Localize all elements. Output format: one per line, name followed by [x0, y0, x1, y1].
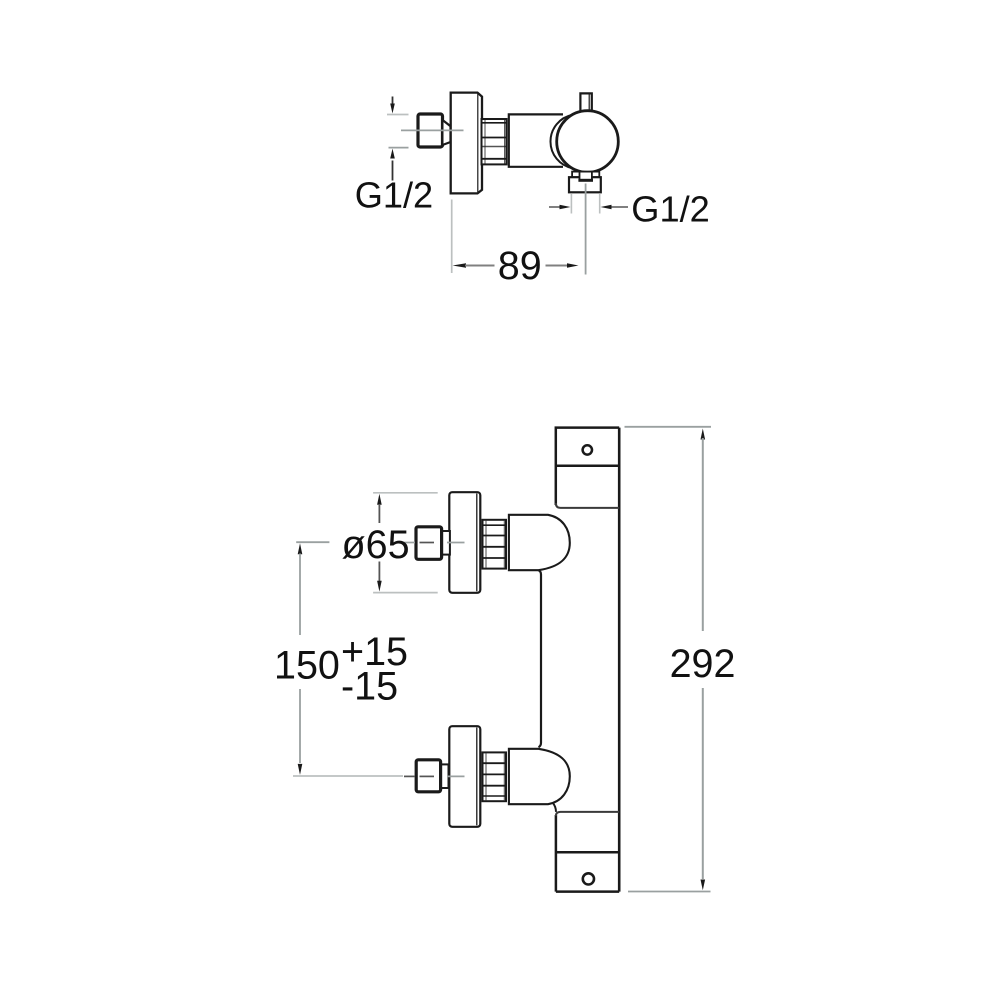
dimension 89	[453, 263, 579, 268]
svg-text:89: 89	[498, 244, 542, 288]
bottom edge	[556, 890, 619, 893]
top shoulder	[556, 503, 619, 508]
outlet flange (top view)	[572, 172, 599, 178]
knob skirt arc (top view)	[550, 115, 572, 168]
lower escutcheon disc front	[449, 726, 480, 827]
upper collar	[442, 531, 450, 555]
lower valve bell	[509, 749, 570, 804]
centerline top view	[401, 129, 464, 131]
bottom shoulder	[556, 812, 619, 816]
dimension 150	[293, 542, 403, 776]
lower valve ribs	[483, 752, 507, 801]
ribbed cartridge (top view)	[482, 119, 507, 164]
outlet centerline extension	[585, 184, 587, 275]
lower knob front	[416, 760, 440, 792]
svg-text:ø65: ø65	[342, 523, 410, 567]
right edge	[618, 428, 621, 892]
escutcheon disc (top view)	[451, 93, 482, 194]
top cap line	[556, 465, 619, 468]
valve body (top view)	[509, 114, 563, 166]
svg-text:G1/2: G1/2	[631, 189, 709, 230]
upper valve ribs	[483, 520, 507, 569]
upper valve bell	[509, 515, 570, 570]
knob stem (top view)	[580, 93, 591, 113]
lower collar	[441, 764, 449, 788]
outlet nut (top view)	[569, 177, 601, 192]
dimension G1/2 left (ticks+arrows)	[387, 97, 409, 181]
bottom left edge	[555, 815, 558, 892]
upper centerline	[403, 542, 465, 544]
inlet knob (top view)	[418, 114, 443, 147]
svg-text:292: 292	[670, 642, 736, 686]
mid tube left edge	[539, 570, 542, 747]
dimension 292	[625, 427, 712, 892]
lower centerline	[404, 775, 465, 777]
dimension G1/2 right (ext lines+arrows)	[549, 194, 628, 214]
lower bell to tube join	[553, 803, 557, 812]
bottom cap line	[556, 851, 619, 854]
outlet inner tab (top view)	[578, 173, 593, 181]
inlet taper	[444, 121, 451, 145]
top tube	[556, 428, 619, 505]
disc extension line for 89	[451, 200, 453, 274]
svg-text:G1/2: G1/2	[355, 175, 433, 216]
bottom screw hole	[583, 873, 594, 884]
svg-text:-15: -15	[341, 664, 398, 708]
top screw hole	[583, 445, 592, 454]
dimension ø65	[373, 493, 438, 593]
body outline front view	[556, 428, 619, 892]
upper escutcheon disc front	[449, 492, 480, 593]
svg-text:150: 150	[274, 644, 340, 688]
upper knob front	[416, 527, 442, 560]
thermostat knob circle (top view)	[557, 111, 619, 173]
